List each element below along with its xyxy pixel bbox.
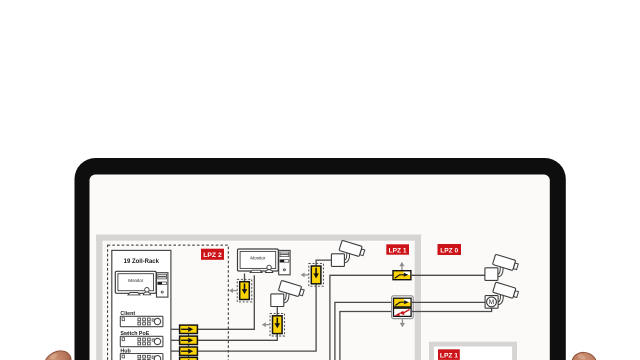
building 1 right wall (415, 235, 421, 360)
surge arrester P4 (rack row4) (180, 357, 198, 360)
wire row1 to monitor (197, 275, 254, 329)
svg-text:LPZ 1: LPZ 1 (389, 247, 407, 254)
building 1 left wall (96, 235, 102, 360)
camera C1 (331, 240, 365, 266)
surge arrester F2 (camera C3 line) (262, 313, 285, 336)
monitor U1 (rack workstation) (115, 271, 168, 297)
switch PoE device (120, 336, 163, 346)
wire rack row2 stub (171, 339, 180, 341)
19 Zoll-Rack cabinet (112, 250, 171, 360)
wire rack row3 stub (171, 350, 180, 352)
svg-text:19 Zoll-Rack: 19 Zoll-Rack (124, 259, 160, 265)
camera C3 (271, 280, 305, 306)
surge arrester P2 (rack row2) (180, 336, 198, 344)
label LPZ 0 (438, 244, 462, 255)
building 2 wall frame (429, 342, 517, 360)
tablet bezel (75, 158, 566, 360)
combined arrester W1 at wall (393, 271, 411, 280)
combined arrester W2a (data) (394, 298, 412, 307)
svg-text:LPZ 0: LPZ 0 (440, 248, 458, 255)
wire row2 to camera C3 arrester (197, 334, 277, 341)
left thumb (39, 346, 75, 360)
surge arrester P3 (rack row3) (180, 347, 198, 355)
camera C5 (PTZ) (485, 282, 519, 308)
earthing arrow down W2 (400, 319, 405, 327)
earthing arrow up W1 (399, 262, 404, 270)
label LPZ 2 (201, 249, 224, 260)
wire row3 to arrester F3 (197, 284, 316, 351)
wire W2b to camera C5 motor loop (411, 308, 492, 312)
power arrester W2b (230V) (394, 308, 412, 316)
wire W2a to camera C5 (411, 301, 485, 303)
wire camera C1 to arrester F3 (316, 260, 331, 266)
wire monitor U2 drop (244, 274, 246, 282)
wire camera C3 drop (276, 307, 278, 316)
camera C4 (485, 254, 519, 280)
monitor U2 (control room) (238, 249, 291, 275)
label LPZ 1 (386, 244, 409, 254)
label LPZ 1 (building 2) (438, 349, 460, 360)
junction links between rack arresters (188, 334, 190, 358)
wire B camera trunk 2 (335, 302, 394, 360)
surge arrester F3 (camera C1 line) (301, 264, 324, 287)
building 1 top wall (96, 235, 421, 241)
svg-text:M: M (489, 299, 494, 306)
arrester pair enclosure W2 (392, 296, 414, 319)
wire rack row1 stub (171, 328, 180, 330)
client device (120, 316, 163, 326)
wire C camera trunk 3 (340, 312, 394, 360)
svg-text:LPZ 1: LPZ 1 (440, 353, 458, 360)
wire A camera trunk 1 (330, 275, 393, 360)
surge arrester F1 (monitor line) (229, 279, 252, 302)
tablet screen (90, 175, 550, 360)
hub device (120, 354, 163, 360)
svg-text:LPZ 2: LPZ 2 (203, 252, 222, 259)
motor M of camera C5 (487, 297, 497, 307)
LPZ 2 zone dashed boundary (108, 245, 229, 360)
wire W1 to camera C4 (411, 274, 485, 276)
right thumb (568, 348, 600, 360)
building 2 interior (434, 347, 512, 360)
surge arrester P1 (rack row1) (180, 325, 198, 333)
